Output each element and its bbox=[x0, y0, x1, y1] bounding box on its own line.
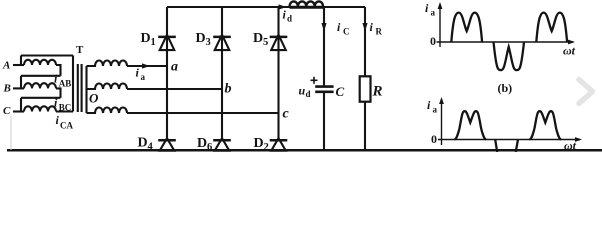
diode D1 bbox=[158, 35, 176, 50]
wire: row3 top line C to step bbox=[21, 97, 61, 99]
wire: bridge bottom bus / page rule bbox=[7, 149, 602, 152]
svg-text:D: D bbox=[253, 31, 263, 46]
waveform bottom x-axis arrow bbox=[575, 137, 582, 142]
svg-text:T: T bbox=[76, 44, 84, 56]
wire: bridge leg 1 bbox=[166, 7, 168, 140]
waveform bottom: x axis bbox=[438, 139, 580, 141]
svg-text:ωt: ωt bbox=[563, 44, 576, 58]
wire: coil AB right end step down to row2 line bbox=[56, 65, 61, 76]
svg-text:i: i bbox=[370, 20, 374, 34]
svg-text:a: a bbox=[431, 8, 436, 18]
svg-text:3: 3 bbox=[206, 37, 211, 48]
inductor Ld bbox=[290, 1, 324, 6]
wire: R branch bottom bbox=[364, 102, 366, 150]
wire: row1 top line A to right bus bbox=[21, 54, 73, 56]
svg-text:CA: CA bbox=[60, 121, 73, 131]
resistor R box bbox=[360, 76, 371, 101]
winding CA coil bbox=[24, 106, 56, 111]
wire: A junction stub up bbox=[20, 56, 22, 66]
svg-text:1: 1 bbox=[151, 37, 156, 48]
waveform bottom: y axis bbox=[438, 99, 580, 145]
winding c (secondary) bbox=[87, 108, 128, 113]
svg-text:O: O bbox=[89, 91, 99, 106]
svg-text:2: 2 bbox=[264, 142, 269, 152]
svg-text:C: C bbox=[343, 27, 350, 37]
svg-text:i: i bbox=[283, 8, 287, 22]
winding b (secondary) bbox=[87, 84, 128, 90]
svg-text:d: d bbox=[287, 14, 292, 24]
terminal B lead bbox=[13, 87, 24, 89]
diode D4 bbox=[158, 138, 176, 151]
arrow i_C bbox=[321, 23, 326, 32]
waveform (b) top: y axis bbox=[437, 4, 574, 47]
svg-text:i: i bbox=[56, 113, 60, 127]
svg-text:d: d bbox=[306, 89, 311, 99]
svg-text:D: D bbox=[254, 136, 264, 151]
svg-text:A: A bbox=[2, 60, 10, 72]
waveform top x-axis arrow bbox=[568, 40, 575, 45]
svg-text:a: a bbox=[141, 72, 146, 82]
waveform top curve positive group 2 bbox=[536, 13, 567, 42]
winding AB coil bbox=[24, 60, 56, 65]
svg-text:a: a bbox=[433, 105, 438, 115]
arrow i_a bbox=[142, 63, 150, 68]
svg-text:c: c bbox=[283, 107, 290, 122]
wire: bridge top bus bbox=[167, 6, 365, 8]
wire: bridge leg 3 bbox=[277, 7, 279, 140]
svg-text:ωt: ωt bbox=[564, 139, 577, 153]
svg-text:C: C bbox=[336, 84, 345, 99]
svg-text:i: i bbox=[136, 66, 140, 80]
transformer core line 1 bbox=[77, 64, 79, 112]
terminal A lead bbox=[13, 64, 24, 66]
svg-text:B: B bbox=[3, 83, 11, 95]
secondary neutral bus bbox=[85, 66, 87, 113]
waveform top y-axis arrow bbox=[438, 2, 443, 9]
svg-text:i: i bbox=[425, 1, 429, 15]
waveform top curve positive group 1 bbox=[451, 13, 482, 42]
wire: B junction stub bbox=[20, 76, 22, 89]
capacitor plus sign bbox=[311, 77, 318, 84]
artifact: grey chevron bbox=[579, 80, 593, 104]
svg-text:D: D bbox=[196, 31, 206, 46]
svg-text:D: D bbox=[141, 31, 151, 46]
svg-text:i: i bbox=[54, 72, 58, 86]
arrow i_d bbox=[279, 4, 287, 9]
wire: bridge leg 2 bbox=[221, 7, 223, 140]
wire: row2 top line B to step bbox=[21, 75, 61, 77]
waveform top curve negative group bbox=[494, 42, 525, 70]
waveform bottom curve positive group 2 bbox=[530, 111, 562, 139]
waveform bottom y-axis arrow bbox=[439, 97, 444, 104]
winding a (secondary) bbox=[87, 61, 128, 67]
terminal C lead bbox=[13, 110, 24, 112]
wire: phase b to bridge node b bbox=[127, 88, 222, 90]
transformer core line 2 bbox=[81, 64, 83, 112]
diode D5 bbox=[270, 35, 288, 50]
svg-text:u: u bbox=[299, 84, 306, 98]
svg-text:5: 5 bbox=[263, 37, 268, 48]
wire: capacitor branch top bbox=[323, 7, 325, 86]
svg-text:i: i bbox=[337, 20, 341, 34]
wire: phase c to bridge node c bbox=[127, 112, 279, 114]
svg-text:AB: AB bbox=[59, 79, 72, 89]
diode D3 bbox=[213, 35, 231, 50]
svg-text:D: D bbox=[138, 136, 148, 151]
artifact: faint vertical line bbox=[10, 116, 12, 150]
svg-text:BC: BC bbox=[59, 103, 72, 113]
svg-text:b: b bbox=[225, 82, 232, 97]
wire: inductor baseline (thick) bbox=[290, 6, 324, 9]
wire: C junction stub bbox=[20, 98, 22, 112]
waveform (b) top: x axis bbox=[437, 41, 574, 43]
svg-text:4: 4 bbox=[148, 142, 154, 153]
wire: primary right bus bbox=[72, 56, 74, 112]
svg-text:0: 0 bbox=[430, 34, 436, 48]
wire: phase a to bridge node a bbox=[127, 65, 167, 67]
wire: coil CA right end to primary right bus bbox=[56, 110, 73, 112]
capacitor C plates bbox=[315, 87, 333, 92]
diode D6 bbox=[213, 138, 231, 151]
svg-text:R: R bbox=[372, 84, 383, 100]
winding BC coil bbox=[24, 83, 56, 88]
svg-text:(b): (b) bbox=[498, 81, 513, 95]
svg-text:i: i bbox=[427, 98, 431, 112]
diode D2 bbox=[270, 138, 288, 151]
wire: capacitor branch bottom bbox=[323, 92, 325, 150]
wire: R branch top bbox=[364, 7, 366, 76]
waveform bottom curve negative clipped bbox=[495, 140, 518, 153]
svg-text:C: C bbox=[3, 105, 11, 117]
arrow i_R bbox=[362, 23, 367, 32]
svg-text:0: 0 bbox=[431, 132, 437, 146]
svg-text:D: D bbox=[197, 136, 207, 151]
wire: coil BC right end step down to row3 line bbox=[56, 88, 61, 97]
svg-text:a: a bbox=[171, 60, 178, 75]
svg-text:R: R bbox=[376, 27, 383, 37]
svg-text:6: 6 bbox=[207, 142, 212, 152]
waveform bottom curve positive group 1 bbox=[455, 111, 487, 139]
